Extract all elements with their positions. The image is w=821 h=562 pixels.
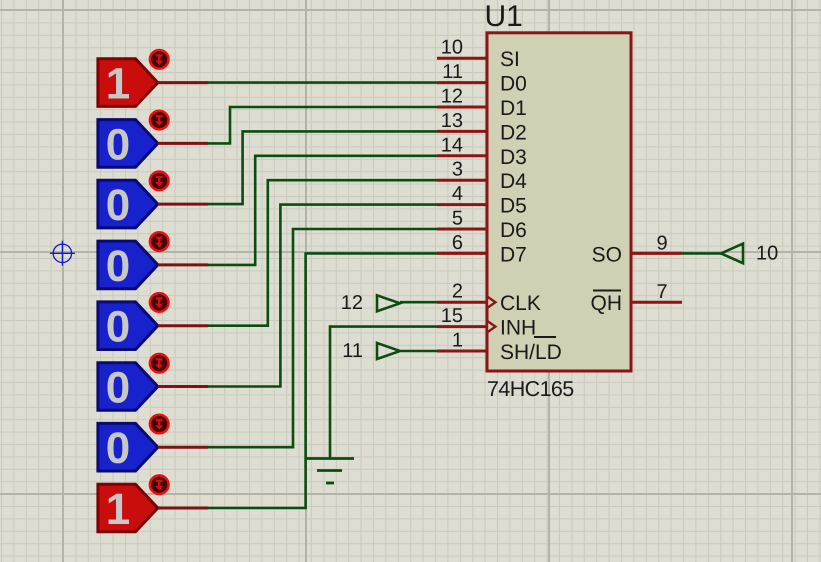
- LS4 toggle button: [150, 232, 169, 251]
- pin QH stub: [631, 301, 682, 304]
- svg-text:9: 9: [657, 232, 668, 254]
- svg-text:6: 6: [452, 232, 463, 254]
- svg-text:13: 13: [441, 110, 463, 132]
- origin marker: [50, 241, 75, 266]
- svg-text:INH: INH: [500, 317, 536, 340]
- pin QH name: [591, 291, 623, 316]
- LS1 pin stub: [158, 81, 208, 84]
- LS8 toggle button: [150, 475, 169, 494]
- svg-text:10: 10: [756, 242, 778, 264]
- wire terminal 11 to SH/LD: [401, 350, 437, 353]
- input terminal 12: [377, 295, 400, 311]
- svg-text:12: 12: [441, 86, 463, 108]
- svg-text:3: 3: [452, 159, 463, 181]
- wire LS8 to D7: [208, 253, 438, 508]
- LS8 pin stub: [158, 507, 208, 510]
- pin D3 stub: [437, 154, 487, 157]
- svg-text:D3: D3: [500, 146, 527, 169]
- pin CLK stub: [437, 301, 487, 304]
- svg-text:74HC165: 74HC165: [487, 377, 574, 401]
- pin SH/LD stub: [437, 350, 487, 353]
- svg-text:0: 0: [106, 181, 130, 230]
- pin D1 stub: [437, 106, 487, 109]
- pin SI stub: [437, 57, 487, 60]
- svg-text:11: 11: [342, 340, 363, 362]
- svg-text:D2: D2: [500, 121, 527, 144]
- wire LS3 to D2: [208, 131, 438, 204]
- svg-text:CLK: CLK: [500, 292, 541, 315]
- pin D4 stub: [437, 179, 487, 182]
- wire LS5 to D4: [208, 180, 438, 326]
- svg-text:SH/LD: SH/LD: [500, 341, 562, 364]
- pin D7 stub: [437, 252, 487, 255]
- logic state LS2 value 0: [98, 120, 158, 170]
- svg-text:D6: D6: [500, 219, 527, 242]
- wire LS7 to D6: [208, 229, 438, 447]
- svg-text:5: 5: [452, 208, 463, 230]
- svg-text:2: 2: [452, 281, 463, 303]
- wire LS4 to D3: [208, 156, 438, 265]
- logic state LS4 value 0: [98, 241, 158, 291]
- svg-text:14: 14: [441, 134, 463, 156]
- LS4 pin stub: [158, 263, 208, 266]
- pin D2 stub: [437, 130, 487, 133]
- logic state LS5 value 0: [98, 302, 158, 352]
- pin D0 stub: [437, 81, 487, 84]
- svg-text:D7: D7: [500, 243, 527, 266]
- svg-text:D4: D4: [500, 170, 527, 193]
- logic state LS8 value 1: [98, 484, 158, 534]
- LS2 toggle button: [150, 111, 169, 130]
- LS5 pin stub: [158, 324, 208, 327]
- svg-text:U1: U1: [485, 0, 523, 33]
- svg-text:0: 0: [106, 364, 130, 413]
- svg-text:D0: D0: [500, 73, 527, 96]
- svg-text:0: 0: [106, 424, 130, 473]
- svg-text:SO: SO: [592, 243, 622, 266]
- wire terminal 12 to CLK: [400, 301, 437, 304]
- pin SO stub: [631, 252, 682, 255]
- pin INH stub: [437, 325, 487, 328]
- LS6 toggle button: [150, 354, 169, 373]
- logic state LS7 value 0: [98, 423, 158, 473]
- pin SH/LD name: [500, 337, 562, 364]
- wire INH to ground: [330, 327, 437, 459]
- LS5 toggle button: [150, 293, 169, 312]
- LS3 pin stub: [158, 203, 208, 206]
- svg-text:SI: SI: [500, 48, 520, 71]
- svg-text:1: 1: [106, 485, 130, 534]
- LS7 pin stub: [158, 446, 208, 449]
- pin INH clock arrow: [488, 320, 498, 334]
- svg-text:15: 15: [441, 305, 463, 327]
- output terminal 10: [721, 244, 743, 264]
- svg-text:QH: QH: [591, 292, 623, 315]
- wire LS6 to D5: [208, 205, 438, 387]
- svg-text:1: 1: [106, 60, 130, 109]
- logic state LS6 value 0: [98, 363, 158, 413]
- LS2 pin stub: [158, 142, 208, 145]
- svg-text:4: 4: [452, 183, 463, 205]
- ground: [306, 459, 354, 484]
- svg-text:1: 1: [452, 330, 463, 352]
- svg-text:D1: D1: [500, 97, 527, 120]
- pin D5 stub: [437, 203, 487, 206]
- logic state LS1 value 1: [98, 59, 158, 109]
- svg-text:11: 11: [442, 61, 463, 83]
- wire LS2 to D1: [208, 107, 438, 143]
- svg-text:0: 0: [106, 242, 130, 291]
- svg-text:D5: D5: [500, 195, 527, 218]
- pin D6 stub: [437, 228, 487, 231]
- logic state LS3 value 0: [98, 180, 158, 230]
- svg-text:10: 10: [441, 37, 463, 59]
- LS3 toggle button: [150, 172, 169, 191]
- chip U1 body: [487, 33, 631, 371]
- wire SO to terminal 10: [682, 252, 721, 255]
- svg-text:0: 0: [106, 303, 130, 352]
- svg-text:0: 0: [106, 120, 130, 169]
- pin CLK clock arrow: [488, 295, 498, 309]
- wire LS1 to D0: [208, 81, 438, 84]
- svg-text:12: 12: [341, 292, 363, 314]
- input terminal 11: [377, 343, 400, 359]
- LS7 toggle button: [150, 415, 169, 434]
- svg-text:7: 7: [657, 281, 668, 303]
- LS6 pin stub: [158, 385, 208, 388]
- LS1 toggle button: [150, 50, 169, 69]
